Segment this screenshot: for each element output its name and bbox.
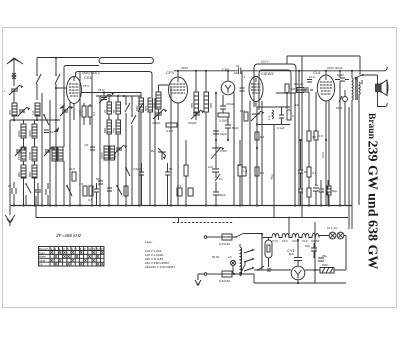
wire rail x250 [249, 101, 251, 205]
svg-text:4,5µF: 4,5µF [133, 167, 141, 171]
series capacitor C32 on rail [238, 69, 242, 74]
svg-text:1k: 1k [50, 130, 54, 134]
coil L9 [52, 147, 57, 161]
svg-text:50µ: 50µ [332, 189, 337, 193]
switch S8 mains [232, 233, 244, 237]
coil L17 (500) [139, 98, 144, 112]
switch S12 [126, 168, 130, 176]
coil L18 (505) [148, 98, 153, 112]
trimmer flag F1 [59, 104, 65, 109]
connector plug [343, 97, 348, 102]
svg-text:U: U [292, 114, 294, 118]
resistor R17 (50u) [327, 186, 331, 195]
capacitor C12 [107, 188, 112, 191]
svg-text:X: X [63, 254, 66, 259]
wire rail x80 [79, 72, 81, 206]
svg-text:X: X [50, 258, 53, 263]
switch S10 [67, 186, 72, 196]
wire rail x109 [108, 96, 110, 205]
trimmer capacitor C1 [9, 85, 20, 95]
wire rail x150 [149, 112, 151, 205]
svg-text:CL4: CL4 [313, 70, 321, 75]
coil L2 (1.0) [35, 103, 40, 116]
capacitor C29 (50) [298, 140, 303, 188]
svg-text:X: X [67, 254, 70, 259]
svg-text:X: X [59, 258, 62, 263]
trimmer capacitor C13 [153, 109, 164, 119]
svg-text:40,5: 40,5 [69, 167, 75, 171]
svg-text:470pF: 470pF [188, 121, 197, 125]
wire T1 a [195, 71, 197, 120]
wire mains top [207, 236, 222, 238]
svg-text:ZF=468 kHz: ZF=468 kHz [55, 233, 82, 238]
wire top bus A [37, 57, 99, 59]
band switch table [39, 247, 105, 267]
capacitor C36 [165, 163, 170, 205]
switch S11 [44, 115, 49, 125]
switch Fu [215, 174, 220, 190]
wire anode top [286, 56, 288, 64]
wire sec down [359, 80, 362, 205]
wire rail x262 [261, 101, 263, 205]
svg-text:6v 1,1A: 6v 1,1A [327, 226, 337, 230]
mains terminal bottom [204, 273, 207, 276]
resistor R19 (0,1) [89, 186, 93, 196]
resistor R15 [307, 188, 311, 197]
svg-text:220V: 220V [181, 66, 188, 70]
wire rail x60 [63, 68, 65, 206]
coil L8 (050) [32, 165, 37, 178]
svg-text:22: 22 [103, 109, 107, 113]
wire CF3 cathode [177, 103, 179, 205]
coil L11 (22) [107, 102, 112, 114]
wire bus B left [76, 72, 153, 98]
output transformer T2 secondary [359, 82, 360, 98]
fuse F2 [222, 271, 232, 277]
svg-text:X: X [80, 262, 83, 267]
coil L13 (580) [107, 120, 112, 134]
svg-text:0,01µF: 0,01µF [294, 82, 304, 86]
table X marks [50, 250, 103, 267]
svg-text:0,2/0,8A: 0,2/0,8A [219, 242, 230, 246]
switch S7 [356, 75, 363, 81]
IF transformer T1 winding a [194, 92, 199, 112]
ground symbol GND [5, 206, 15, 227]
wire CY1 right row [305, 269, 315, 271]
wire to heater chain [244, 234, 272, 271]
capacitor C7 [35, 183, 41, 205]
wire C62 down [233, 92, 235, 205]
capacitor C26 (10u) [311, 243, 317, 258]
svg-text:220V 40mA: 220V 40mA [327, 66, 343, 70]
svg-text:10: 10 [88, 247, 92, 251]
wire CL4 cathode [325, 101, 327, 205]
svg-text:X: X [55, 254, 58, 259]
svg-text:50 W: 50 W [212, 255, 219, 259]
resistor R2 [124, 186, 128, 196]
wire coil column a [23, 120, 25, 205]
lamp L2 [337, 232, 344, 239]
svg-text:220/240 V 239 GW/BT: 220/240 V 239 GW/BT [145, 265, 175, 269]
svg-text:0,5M: 0,5M [220, 149, 227, 153]
switch S1a [36, 58, 41, 101]
svg-text:CY1: CY1 [272, 239, 278, 243]
voltage text block [145, 240, 175, 269]
svg-text:C/EW2: C/EW2 [261, 71, 274, 76]
output transformer T2 primary [352, 71, 353, 102]
trimmer capacitor C8 [99, 94, 109, 103]
svg-text:78 V: 78 V [98, 88, 104, 92]
tube CK1 [67, 77, 82, 104]
wire rail x70 [69, 147, 71, 205]
svg-text:12: 12 [97, 247, 101, 251]
svg-text:555: 555 [190, 103, 194, 108]
speaker terminal hooks [385, 67, 387, 107]
svg-text:0,1M: 0,1M [166, 129, 173, 133]
coil L10 [58, 147, 63, 161]
svg-text:1,0: 1,0 [31, 110, 35, 115]
coil L4 (3000) [32, 124, 37, 138]
junction dots ground bus [13, 204, 341, 206]
wire top right corner [360, 56, 378, 84]
capacitor C9 [90, 147, 95, 150]
svg-text:50: 50 [304, 170, 308, 174]
capacitor C11 [98, 181, 103, 184]
svg-text:X: X [101, 250, 104, 255]
svg-text:9,5V: 9,5V [321, 152, 325, 158]
switch S1b [55, 58, 60, 101]
resistor R12 [242, 167, 246, 176]
svg-text:182: 182 [240, 109, 245, 113]
wire x315 B+ [314, 222, 316, 283]
svg-text:B+: B+ [151, 149, 155, 153]
heater chain bumps [272, 234, 319, 238]
svg-text:050: 050 [28, 172, 32, 177]
svg-text:3000: 3000 [28, 130, 32, 137]
table row labels [39, 251, 46, 267]
wire junction row [10, 116, 60, 120]
speaker LS [376, 84, 382, 92]
svg-text:10µ: 10µ [305, 244, 310, 248]
switch S6 [117, 186, 122, 195]
svg-text:CL4: CL4 [302, 239, 308, 243]
pot P3 [251, 111, 261, 121]
switch S2 [26, 184, 31, 205]
svg-text:25µ: 25µ [319, 189, 324, 193]
trimmer capacitor C2 [18, 107, 27, 116]
capacitor C22 [326, 180, 331, 205]
wire rail x171 [170, 88, 173, 205]
tube C62 [221, 81, 235, 95]
svg-text:1µF: 1µF [208, 165, 213, 169]
trimmer capacitor C14 [191, 110, 201, 119]
wire rail x329 [328, 101, 330, 205]
wire CK1 anode [82, 93, 142, 97]
wire rail x50 [49, 100, 51, 205]
lightning arrester [12, 72, 16, 86]
wire dial pill (shielded lead) [99, 58, 154, 64]
switch S13 [258, 266, 264, 270]
svg-text:CF3: CF3 [166, 70, 174, 75]
capacitor C25 (8uF) [294, 258, 302, 261]
lamp L1 [329, 232, 336, 239]
connector K1 [268, 268, 270, 272]
svg-text:Fu: Fu [219, 177, 223, 181]
resistor R11 [255, 167, 259, 176]
ground bus 2 [36, 196, 348, 218]
wire coil column b [34, 120, 36, 205]
wire heater to lamps [319, 236, 329, 238]
resistor R7 (1M) [285, 84, 289, 93]
svg-text:0,1µF: 0,1µF [277, 126, 285, 130]
trimmer arrowheads [20, 85, 264, 159]
wire C62 top [227, 71, 229, 81]
wire CY1 top [297, 240, 299, 267]
capacitor C16 (470pF) [220, 95, 226, 113]
svg-text:0,2/0,8A: 0,2/0,8A [219, 279, 230, 283]
wire left rail [9, 120, 11, 205]
svg-text:X: X [92, 250, 95, 255]
wire top right bus [287, 55, 360, 57]
fuse F1 [222, 234, 232, 240]
switch S4 [131, 96, 136, 205]
wire shield bottom [64, 66, 99, 68]
wire speaker bottom [378, 92, 386, 107]
switch S5 [138, 96, 143, 205]
capacitor C33 [44, 130, 49, 133]
svg-text:580: 580 [103, 128, 107, 133]
svg-text:0,1MΩ: 0,1MΩ [219, 119, 229, 123]
svg-text:75 V: 75 V [83, 84, 89, 88]
transformer core [356, 77, 357, 100]
wire antenna down [13, 91, 15, 103]
antenna A1 [7, 58, 23, 72]
wire rail x274 [273, 125, 275, 218]
svg-text:1k: 1k [8, 184, 12, 188]
svg-text:10µF: 10µF [220, 132, 227, 136]
junction dots misc [13, 87, 327, 284]
svg-text:1,5: 1,5 [243, 169, 248, 173]
svg-text:25µ: 25µ [322, 254, 327, 258]
svg-text:X: X [76, 254, 79, 259]
capacitor C19 (50pF) [213, 190, 219, 205]
wire rail x42 [41, 93, 43, 205]
svg-text:X: X [92, 258, 95, 263]
svg-text:X: X [97, 254, 100, 259]
coil L1 (500) [12, 103, 17, 116]
svg-text:110 V: 110 V [261, 60, 269, 64]
wire CF3 anode [177, 71, 179, 77]
IF transformer T1 winding b [204, 92, 209, 112]
coil L7 (080) [21, 165, 26, 178]
resistor R18 (4,5) [83, 186, 87, 196]
wire CY1 left row [254, 269, 291, 271]
resistor R1a [82, 106, 86, 117]
svg-text:X: X [101, 262, 104, 267]
svg-text:470pF: 470pF [226, 102, 235, 106]
svg-text:10,2: 10,2 [309, 75, 315, 79]
svg-text:470pF: 470pF [152, 121, 161, 125]
dashed chassis line [173, 222, 233, 224]
capacitor C28 (25u) [313, 188, 319, 205]
svg-text:1,4: 1,4 [238, 163, 243, 167]
resistor R4 (0.1M) [218, 113, 229, 117]
capacitor C37 [240, 88, 245, 91]
resistor R14 [307, 167, 311, 177]
resistor R9 [287, 110, 291, 120]
shield box outer [254, 64, 296, 107]
wire mains bottom [207, 273, 222, 275]
capacitor C6 [46, 183, 50, 205]
capacitor C21 [319, 180, 324, 205]
svg-text:X: X [84, 258, 87, 263]
resistor R16 (1,5) [314, 131, 318, 140]
svg-text:1,5: 1,5 [319, 134, 324, 138]
coil L12 (65) [116, 102, 121, 114]
svg-text:Lage:: Lage: [145, 240, 153, 244]
wire CK1 grid [56, 87, 67, 89]
resistor R10 [255, 132, 259, 140]
wire CY1 bottom [297, 280, 299, 283]
dropper resistor RD (tapped) [240, 247, 242, 276]
capacitor C24 [335, 78, 349, 81]
resistor R20 (40,5) [72, 172, 76, 181]
trimmer capacitor C3 [15, 147, 23, 156]
svg-text:TA: TA [39, 263, 43, 267]
svg-text:16: 16 [236, 64, 240, 68]
svg-text:5µ30: 5µ30 [337, 73, 344, 77]
svg-text:Braun: Braun [366, 113, 376, 140]
svg-text:X: X [97, 262, 100, 267]
svg-text:CF3: CF3 [282, 239, 288, 243]
svg-text:X: X [67, 262, 70, 267]
wire rail x100 [99, 96, 101, 205]
wire bus2 drop [288, 218, 290, 238]
lamp LA [230, 260, 235, 265]
resistor R3 (0.1M) [166, 123, 177, 127]
coil L19 (100) [156, 92, 161, 109]
svg-text:980: 980 [209, 103, 213, 108]
junction dots 220V rail [177, 70, 353, 72]
resistor R1b [88, 106, 92, 117]
svg-text:8µF: 8µF [289, 252, 294, 256]
capacitor C20 [279, 107, 284, 125]
svg-text:1M: 1M [291, 87, 296, 91]
svg-text:50: 50 [96, 177, 100, 181]
svg-text:LA: LA [228, 255, 232, 259]
svg-text:X: X [50, 250, 53, 255]
capacitor C35 (4,5uF) [139, 163, 144, 205]
resistor R6 [184, 165, 188, 176]
wire bus B right (220V rail) [174, 70, 385, 72]
wire C/EW2 bottom [255, 102, 257, 108]
capacitor C17 (50pF) [225, 117, 231, 140]
rectifier CY1 [291, 266, 305, 280]
svg-text:X: X [71, 258, 74, 263]
capacitor C5 [12, 182, 16, 205]
trimmer capacitor C4 [44, 147, 52, 156]
ground symbol mains [195, 274, 204, 286]
svg-text:0,3: 0,3 [92, 111, 96, 116]
svg-text:ZWF: ZWF [336, 106, 343, 110]
urdox tube U1 [265, 240, 272, 258]
svg-text:15200: 15200 [28, 151, 32, 160]
capacitor C15 (10uF) [213, 131, 219, 134]
svg-text:WW: WW [322, 263, 328, 267]
wire rail x242 [241, 71, 243, 205]
coil L14 (770) [116, 120, 121, 134]
wire lamps right [344, 236, 346, 271]
svg-text:5350: 5350 [100, 152, 104, 159]
wire rail x316 [315, 92, 317, 186]
ground bus 1 [10, 205, 352, 207]
svg-text:X: X [88, 254, 91, 259]
capacitor C30 [298, 189, 303, 205]
shield box inner [259, 70, 291, 110]
svg-text:505: 505 [144, 106, 148, 111]
tube CL4 [317, 75, 334, 101]
svg-text:2000: 2000 [17, 130, 21, 137]
wire CK1 cathode down [70, 102, 90, 150]
wire T1 b [205, 71, 207, 205]
table header text [39, 247, 104, 251]
coil L5 (15300) [21, 147, 26, 161]
svg-text:X: X [59, 250, 62, 255]
svg-text:0,1: 0,1 [177, 184, 182, 188]
component box row [177, 188, 182, 196]
wire bus2 stub [178, 218, 180, 223]
bottom rail power [254, 274, 346, 283]
trimmer capacitor C34 [60, 106, 70, 116]
svg-text:239 GW und 638 GW: 239 GW und 638 GW [365, 141, 380, 270]
wire rail x349 [348, 107, 350, 229]
tap arrows [244, 249, 254, 271]
svg-text:X: X [80, 250, 83, 255]
wire rail x57 [55, 100, 57, 205]
svg-text:1:3: 1:3 [267, 115, 271, 120]
resistor R5 [238, 165, 242, 176]
wire rail x118 [117, 96, 119, 205]
pot P2 volume [211, 93, 221, 160]
svg-text:CK1: CK1 [84, 75, 93, 80]
svg-text:100: 100 [152, 103, 156, 108]
tube C/EW2 [249, 77, 263, 102]
svg-text:50pF: 50pF [219, 193, 226, 197]
wire rail x352 [351, 102, 353, 229]
svg-text:X: X [71, 250, 74, 255]
coil L16 (6950) [110, 146, 115, 160]
svg-text:500: 500 [135, 106, 139, 111]
wire h107 [257, 106, 290, 108]
trimmer capacitor C10 [114, 145, 124, 154]
wire CL4 top [325, 71, 327, 75]
coil L6 (15200) [32, 147, 37, 161]
coil L20 [272, 110, 274, 119]
svg-text:50pF: 50pF [232, 126, 239, 130]
switch S3 [125, 96, 130, 205]
wire grid line [276, 92, 296, 94]
svg-text:080: 080 [17, 172, 21, 177]
wire rail x309 [308, 92, 310, 205]
svg-text:4,5: 4,5 [84, 143, 89, 147]
wire rail x340 [339, 71, 341, 205]
switch S9 [240, 262, 245, 274]
mains terminal top [204, 236, 207, 239]
svg-text:HF: HF [234, 71, 238, 75]
wire x287 down [286, 93, 288, 109]
field coil W (WW) [320, 268, 334, 274]
wire rail x141 [140, 93, 142, 206]
